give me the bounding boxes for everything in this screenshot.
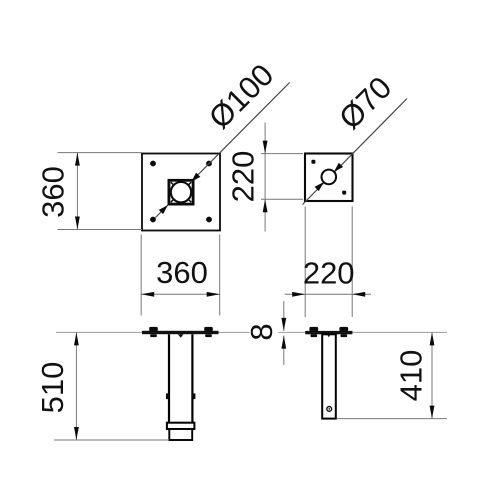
dim 360 horizontal: arrow left [141, 292, 154, 297]
side tab right [192, 393, 195, 399]
leader arrow upper small plate [332, 163, 343, 174]
dim 8: arrow up [281, 336, 286, 349]
square hole top-left [311, 160, 315, 164]
small hole center dot [328, 408, 330, 410]
tube wall left [168, 334, 170, 423]
svg-text:360: 360 [156, 255, 208, 290]
tube wall right [191, 334, 193, 423]
dim 360 vertical: extension line top [58, 152, 143, 154]
hanging flat bar [322, 334, 336, 418]
leader line for diameter 100 [156, 83, 290, 218]
leader arrow upper [189, 173, 200, 184]
top view: small plate outline [305, 154, 353, 202]
small hole in bar [327, 407, 332, 412]
side tab left [166, 393, 169, 399]
center hole circle d70 [322, 170, 337, 185]
dim 220 vertical: extension line bottom [261, 198, 303, 200]
svg-text:220: 220 [303, 256, 355, 291]
side view right: base plate edge bar [305, 331, 352, 334]
dim 510: bottom extension line [54, 439, 169, 441]
dim 220 horizontal: dimension line [285, 293, 371, 295]
dim 8: upper line [283, 301, 285, 331]
dim 220 vertical: dimension line [264, 122, 266, 231]
dim 410: arrow up [430, 332, 435, 345]
collar ring [167, 423, 195, 429]
side view left: top extension line segment 1 [56, 331, 250, 333]
weld tick under right plate [327, 334, 331, 337]
dim 410: arrow down [430, 406, 435, 419]
square hole bottom-right [342, 191, 346, 195]
top view: large base plate outline [142, 154, 220, 231]
dim 8: lower line [283, 336, 285, 365]
side view left: top extension line segment 2 [279, 331, 448, 333]
svg-text:510: 510 [35, 362, 70, 414]
dim 220 horizontal: arrow right (outside left) [292, 292, 305, 297]
dim 220 vertical: arrow down (above) [263, 141, 268, 154]
svg-text:220: 220 [226, 151, 261, 203]
dim 220 horizontal: arrow left (outside right) [352, 292, 365, 297]
svg-text:410: 410 [394, 350, 429, 402]
dim 220 vertical: extension line top [261, 153, 303, 155]
dim 360 horizontal: extension line right [219, 235, 221, 316]
dim 220 horizontal: extension line left [304, 207, 306, 318]
dim 8: arrow down [281, 318, 286, 331]
corner weld tick BR [188, 199, 191, 202]
center hole circle d100 [171, 182, 191, 202]
lower tube end [169, 429, 192, 440]
dim 360 vertical: dimension line [76, 153, 78, 230]
dim 510: dimension line [75, 332, 77, 440]
bolt right of right view [339, 327, 348, 337]
dim 510: arrow down [74, 427, 79, 440]
center square tube section [169, 180, 193, 204]
dim 360 vertical: extension line bottom [58, 229, 143, 231]
bolt hole bottom-left [150, 217, 156, 223]
dim 360 vertical: arrow down [75, 217, 80, 230]
dim 510: arrow up [74, 332, 79, 345]
bolt right of left view [204, 327, 213, 337]
weld mark under plate [178, 334, 184, 338]
svg-text:360: 360 [36, 166, 71, 218]
bolt left of left view [149, 327, 158, 337]
dim 220 horizontal: extension line right [351, 207, 353, 318]
leader arrow lower [159, 203, 170, 214]
bolt hole top-right [206, 161, 212, 167]
corner weld tick TR [188, 182, 191, 185]
leader line for diameter 70 [303, 99, 408, 205]
dim 220 vertical: arrow up (below) [263, 199, 268, 212]
corner weld tick TL [171, 182, 174, 185]
corner weld tick BL [171, 199, 174, 202]
bolt left of right view [309, 327, 318, 337]
dim 360 vertical: arrow up [75, 153, 80, 166]
side view left: base plate edge bar [142, 331, 219, 334]
bolt hole top-left [150, 161, 156, 167]
dim 360 horizontal: extension line left [140, 235, 142, 316]
bolt hole bottom-right [206, 217, 212, 223]
dim 360 horizontal: arrow right [207, 292, 220, 297]
dim 410: dimension line [431, 332, 433, 418]
svg-text:8: 8 [244, 323, 279, 340]
leader arrow lower small plate [315, 180, 326, 191]
dim 360 horizontal: dimension line [141, 293, 220, 295]
dim 410: bottom extension line [337, 418, 447, 420]
